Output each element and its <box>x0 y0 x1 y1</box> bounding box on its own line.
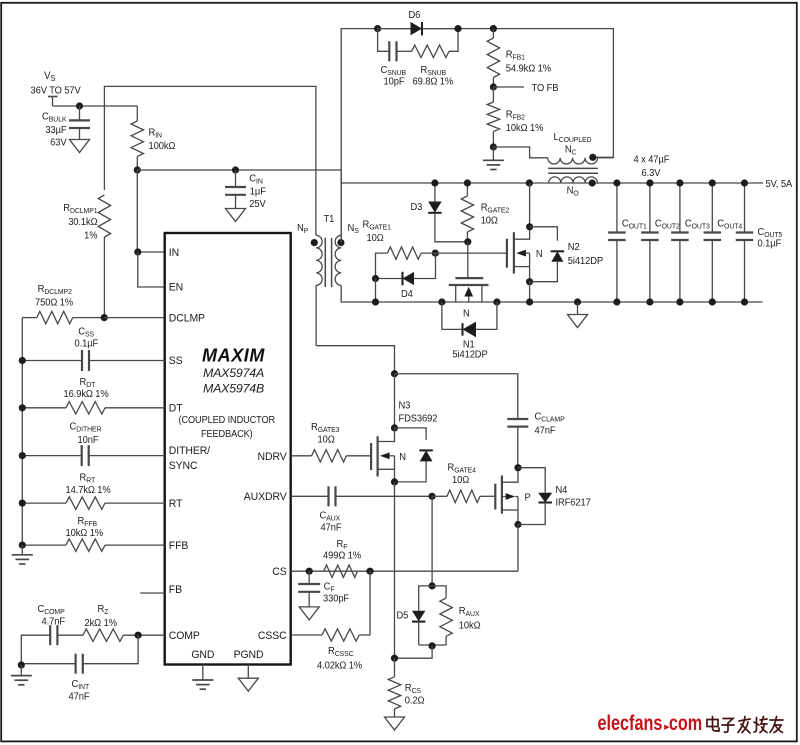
svg-text:1µF: 1µF <box>250 186 266 198</box>
svg-text:RIN: RIN <box>149 127 162 139</box>
resistor RF <box>323 539 361 578</box>
svg-text:RCSSC: RCSSC <box>328 646 354 658</box>
svg-text:47nF: 47nF <box>69 691 90 703</box>
watermark chinese characters <box>707 717 783 734</box>
wire left rail <box>21 318 23 545</box>
label 5V 5A <box>766 178 793 190</box>
svg-text:RF: RF <box>337 539 348 551</box>
svg-text:0.2Ω: 0.2Ω <box>405 695 425 707</box>
op-amp U1 MAX5974 box <box>165 233 291 665</box>
svg-text:RGATE4: RGATE4 <box>448 462 476 474</box>
wire CS line <box>291 570 518 572</box>
resistor RFB1 <box>487 29 551 87</box>
svg-text:RGATE1: RGATE1 <box>363 219 391 231</box>
svg-text:RGATE2: RGATE2 <box>481 202 509 214</box>
wire secondary output rail <box>341 182 763 184</box>
svg-text:10kΩ 1%: 10kΩ 1% <box>506 123 544 135</box>
node RIN bottom junction <box>134 166 141 173</box>
svg-text:0.1µF: 0.1µF <box>75 338 99 350</box>
ground left rail <box>12 545 33 564</box>
node TO FB junction <box>490 83 497 90</box>
svg-text:30.1kΩ: 30.1kΩ <box>68 217 97 229</box>
ground GND pin <box>192 665 213 690</box>
svg-text:IN: IN <box>169 247 179 259</box>
node RFB1 top junction <box>490 25 497 32</box>
svg-text:DCLMP: DCLMP <box>169 312 205 324</box>
resistor RSNUB <box>397 29 459 88</box>
ground below RCS <box>385 717 405 730</box>
node VS input terminal <box>31 71 82 106</box>
svg-text:CAUX: CAUX <box>320 510 341 522</box>
node rail junction below D4 <box>372 298 379 305</box>
wire N3 drain <box>394 374 396 428</box>
node NS rail junction <box>526 179 533 186</box>
svg-text:COUT1: COUT1 <box>622 218 647 230</box>
node SS rail junction <box>19 357 26 364</box>
resistor RGATE3 <box>291 422 371 462</box>
svg-text:N3: N3 <box>399 400 411 412</box>
svg-text:10kΩ 1%: 10kΩ 1% <box>66 528 104 540</box>
node snubber cathode junction <box>454 25 461 32</box>
node N2 source junction <box>526 278 533 285</box>
capacitor CAUX <box>291 486 432 533</box>
diode N3 body <box>395 428 433 482</box>
svg-text:MAX5974A: MAX5974A <box>203 366 264 380</box>
wire to RCS node <box>395 646 433 658</box>
capacitor CIN <box>225 170 266 210</box>
resistor RZ <box>83 604 165 642</box>
node RT rail junction <box>19 500 26 507</box>
node RF right junction <box>366 568 373 575</box>
svg-text:RFFB: RFFB <box>78 516 98 528</box>
svg-text:NP: NP <box>297 223 308 235</box>
svg-text:NC: NC <box>565 144 577 156</box>
node RCS junction <box>391 655 398 662</box>
wire N4 source to CS line <box>517 525 519 572</box>
resistor RCS <box>388 658 424 717</box>
svg-text:499Ω 1%: 499Ω 1% <box>323 550 361 562</box>
node D5-RAUX top junction <box>429 582 436 589</box>
svg-text:10Ω: 10Ω <box>367 233 384 245</box>
transistor N4 <box>495 468 531 525</box>
wire EN <box>138 252 165 287</box>
resistor RDCLMP2 <box>22 284 104 324</box>
wire TO FB stub <box>493 83 558 95</box>
node RGATE2 bottom junction <box>464 238 471 245</box>
MAXIM logo <box>202 346 265 366</box>
pin PGND label <box>234 649 264 661</box>
svg-text:D5: D5 <box>397 610 409 622</box>
diode D3 <box>411 183 468 242</box>
svg-text:NS: NS <box>348 223 359 235</box>
node DCLMP junction <box>101 314 108 321</box>
svg-text:CCLAMP: CCLAMP <box>535 411 565 423</box>
svg-text:MAX5974B: MAX5974B <box>203 382 264 396</box>
svg-text:69.8Ω 1%: 69.8Ω 1% <box>413 76 454 88</box>
svg-text:NO: NO <box>567 185 579 197</box>
svg-text:6.3V: 6.3V <box>642 168 661 180</box>
svg-text:10nF: 10nF <box>78 435 99 447</box>
svg-text:25V: 25V <box>249 199 266 211</box>
svg-text:COMP: COMP <box>169 630 200 642</box>
node N4 drain junction <box>514 464 521 471</box>
diode N4 body <box>518 468 591 525</box>
svg-text:RSNUB: RSNUB <box>421 65 447 77</box>
node RGATE2 top rail junction <box>464 179 471 186</box>
svg-text:COUT3: COUT3 <box>685 218 710 230</box>
inductor core <box>548 168 598 173</box>
svg-text:63V: 63V <box>50 137 67 149</box>
transformer T1 secondary winding NS <box>335 223 762 302</box>
svg-text:FEEDBACK): FEEDBACK) <box>201 428 253 440</box>
resistor RCSSC <box>291 571 370 671</box>
svg-text:RDCLMP1: RDCLMP1 <box>63 203 97 215</box>
svg-text:RRT: RRT <box>80 472 96 484</box>
transformer T1 primary winding NP <box>297 214 335 346</box>
wire top rail to transformer primary <box>104 86 316 235</box>
resistor RAUX <box>432 586 480 645</box>
wire clamp branch <box>395 374 518 419</box>
node AUXDRV junction <box>429 493 436 500</box>
label N3 <box>399 400 438 425</box>
svg-text:N: N <box>463 308 470 320</box>
svg-text:5i412DP: 5i412DP <box>568 256 604 268</box>
node D4 left junction <box>372 275 379 282</box>
diode D5 <box>397 586 433 645</box>
resistor RDCLMP1 <box>63 195 110 318</box>
diode D6 <box>378 10 458 36</box>
svg-text:CCOMP: CCOMP <box>38 604 65 616</box>
svg-text:33µF: 33µF <box>45 125 66 137</box>
svg-text:D4: D4 <box>401 289 413 301</box>
inductor LCOUPLED winding NO <box>549 177 598 197</box>
capacitor CSS <box>22 326 164 371</box>
svg-text:(COUPLED INDUCTOR: (COUPLED INDUCTOR <box>179 415 276 427</box>
capacitor CCLAMP <box>507 411 565 468</box>
node N1 right rail junction <box>493 298 500 305</box>
transformer T1 core <box>325 238 331 287</box>
svg-text:SYNC: SYNC <box>169 460 198 472</box>
svg-text:10pF: 10pF <box>384 76 405 88</box>
svg-text:RFB2: RFB2 <box>506 109 525 121</box>
resistor RGATE4 <box>432 462 495 502</box>
svg-text:CSSC: CSSC <box>258 630 287 642</box>
node NC polarity dot <box>589 154 596 161</box>
svg-text:T1: T1 <box>324 214 335 226</box>
svg-text:FFB: FFB <box>169 540 188 552</box>
node N2 rail junction <box>526 298 533 305</box>
svg-text:RAUX: RAUX <box>459 606 480 618</box>
IC right pin labels <box>244 451 288 642</box>
svg-text:RDT: RDT <box>80 377 96 389</box>
wire N2 source to rail <box>529 282 531 302</box>
capacitor COUT5 <box>736 179 783 305</box>
node DT rail junction <box>19 404 26 411</box>
node NO polarity dot <box>589 179 596 186</box>
resistor RIN <box>131 106 175 170</box>
svg-text:D3: D3 <box>411 202 423 214</box>
svg-text:RGATE3: RGATE3 <box>311 422 339 434</box>
capacitor CCOMP <box>21 604 83 665</box>
capacitor COUT2 <box>641 179 680 305</box>
node COMP junction <box>135 632 142 639</box>
svg-text:4.7nF: 4.7nF <box>42 616 65 628</box>
node RGATE1 right junction <box>432 250 439 257</box>
svg-text:750Ω 1%: 750Ω 1% <box>35 297 73 309</box>
label MAX5974A <box>203 366 264 380</box>
svg-text:MAXIM: MAXIM <box>202 346 265 366</box>
watermark elecfans.com <box>598 711 703 734</box>
capacitor COUT4 <box>704 179 743 305</box>
svg-text:DITHER/: DITHER/ <box>169 445 210 457</box>
svg-text:FB: FB <box>169 584 182 596</box>
wire D4 node to rail <box>375 279 377 303</box>
transistor N3 <box>371 428 406 482</box>
svg-text:EN: EN <box>169 281 183 293</box>
svg-text:RCS: RCS <box>405 683 421 695</box>
ground below CIN <box>226 209 246 222</box>
svg-text:CINT: CINT <box>72 679 90 691</box>
ground below CBULK <box>70 140 90 153</box>
resistor RRT <box>22 472 164 509</box>
svg-text:RZ: RZ <box>98 604 109 616</box>
resistor RFB2 <box>487 87 543 147</box>
resistor RFFB <box>22 516 164 552</box>
node clamp junction <box>391 370 398 377</box>
wire VS to RIN <box>53 105 138 107</box>
svg-text:N: N <box>399 452 406 464</box>
ground comp network <box>11 665 32 685</box>
capacitor CSNUB <box>378 29 407 88</box>
svg-text:SS: SS <box>169 355 183 367</box>
wire IN node rail <box>137 169 341 171</box>
svg-text:CIN: CIN <box>249 173 262 185</box>
wire D5 RAUX bottom <box>419 644 446 646</box>
ground below RFB2 <box>483 147 504 170</box>
resistor RDT <box>22 377 164 414</box>
diode D4 <box>376 253 436 300</box>
svg-text:CSNUB: CSNUB <box>381 65 407 77</box>
svg-text:COUT2: COUT2 <box>655 218 680 230</box>
svg-text:5V, 5A: 5V, 5A <box>766 178 793 190</box>
svg-text:RT: RT <box>169 498 183 510</box>
svg-text:CSS: CSS <box>78 326 94 338</box>
svg-text:100kΩ: 100kΩ <box>149 141 176 153</box>
capacitor CBULK <box>42 106 90 149</box>
ground output rail <box>568 302 588 328</box>
label MAX5974B <box>203 382 264 396</box>
node RFB2 bottom junction <box>490 143 497 150</box>
svg-text:10Ω: 10Ω <box>452 475 469 487</box>
wire gate line to N2 <box>421 252 507 254</box>
wire RGATE2 to N1 gate <box>467 242 469 278</box>
transistor N1 <box>449 278 489 320</box>
wire DCLMP to IC <box>104 317 165 319</box>
svg-text:N2: N2 <box>568 242 580 254</box>
wire top rail <box>341 29 613 243</box>
wire N3 source down <box>394 482 396 658</box>
node D5-RAUX bottom junction <box>429 642 436 649</box>
node N1 left rail junction <box>438 298 445 305</box>
resistor RGATE1 <box>363 219 422 278</box>
svg-text:LCOUPLED: LCOUPLED <box>554 132 592 144</box>
node CF junction <box>306 568 313 575</box>
transistor N2 <box>507 183 543 282</box>
capacitor CDITHER <box>22 421 164 466</box>
node DITHER rail junction <box>19 452 26 459</box>
pin GND label <box>191 649 214 661</box>
svg-text:CDITHER: CDITHER <box>70 421 102 433</box>
node N4 source junction <box>514 521 521 528</box>
svg-text:36V TO 57V: 36V TO 57V <box>31 85 82 97</box>
svg-text:elecfans: elecfans <box>598 711 663 734</box>
svg-text:AUXDRV: AUXDRV <box>244 491 288 503</box>
svg-text:1%: 1% <box>84 230 98 242</box>
svg-text:16.9kΩ 1%: 16.9kΩ 1% <box>64 389 109 401</box>
diode N2 body <box>530 227 604 282</box>
svg-text:com: com <box>669 711 702 734</box>
svg-text:GND: GND <box>191 649 214 661</box>
wire NS top to rail <box>340 170 342 243</box>
svg-text:5i412DP: 5i412DP <box>452 349 488 361</box>
wire primary to N3 drain <box>316 346 394 374</box>
node IN junction <box>134 248 141 255</box>
svg-text:PGND: PGND <box>234 649 264 661</box>
IC left pin labels <box>169 247 210 642</box>
resistor RGATE2 <box>461 183 509 242</box>
node FFB rail junction <box>19 542 26 549</box>
svg-text:14.7kΩ 1%: 14.7kΩ 1% <box>66 485 111 497</box>
node CCOMP-CINT left junction <box>18 661 25 668</box>
node N2 drain junction <box>526 223 533 230</box>
svg-text:0.1µF: 0.1µF <box>758 238 782 250</box>
wire AUX sense down <box>431 496 433 586</box>
node N3 source junction <box>391 478 398 485</box>
node output gnd junction <box>574 298 581 305</box>
node NS polarity dot <box>337 239 344 246</box>
svg-text:NDRV: NDRV <box>258 451 288 463</box>
svg-text:10kΩ: 10kΩ <box>459 620 481 632</box>
svg-text:2kΩ 1%: 2kΩ 1% <box>85 618 118 630</box>
svg-text:CF: CF <box>324 581 335 593</box>
svg-text:TO FB: TO FB <box>532 83 559 95</box>
svg-text:330pF: 330pF <box>323 593 349 605</box>
svg-text:4 x 47µF: 4 x 47µF <box>634 154 670 166</box>
wire FB stub <box>140 592 165 594</box>
diode N1 body <box>442 302 497 361</box>
svg-text:FDS3692: FDS3692 <box>399 413 438 425</box>
svg-text:54.9kΩ 1%: 54.9kΩ 1% <box>506 63 551 75</box>
label coupled inductor feedback <box>179 415 276 440</box>
svg-text:DT: DT <box>169 402 183 414</box>
svg-text:P: P <box>525 492 532 504</box>
capacitor COUT3 <box>671 179 710 305</box>
svg-text:RDCLMP2: RDCLMP2 <box>38 284 72 296</box>
svg-text:47nF: 47nF <box>321 522 342 534</box>
svg-text:D6: D6 <box>409 10 421 22</box>
svg-text:10Ω: 10Ω <box>318 434 335 446</box>
svg-text:RFB1: RFB1 <box>506 49 525 61</box>
node D3 top rail junction <box>431 179 438 186</box>
node CIN junction <box>232 166 239 173</box>
svg-text:N: N <box>536 249 543 261</box>
svg-text:IRF6217: IRF6217 <box>556 497 591 509</box>
capacitor COUT1 <box>608 179 647 305</box>
ground PGND pin <box>238 665 258 692</box>
wire IN-EN vertical <box>137 170 164 252</box>
svg-text:10Ω: 10Ω <box>481 215 498 227</box>
capacitor CF <box>298 571 349 607</box>
ground below CF <box>299 607 319 620</box>
svg-text:COUT5: COUT5 <box>758 227 783 239</box>
svg-text:N4: N4 <box>556 485 568 497</box>
inductor LCOUPLED winding NC <box>493 132 613 164</box>
node VS junction <box>76 102 83 109</box>
svg-text:CBULK: CBULK <box>42 111 67 123</box>
label 4x47uF <box>634 154 670 179</box>
node N3 drain junction <box>391 424 398 431</box>
svg-text:47nF: 47nF <box>535 425 556 437</box>
capacitor CINT <box>21 635 138 702</box>
node D6 anode junction <box>374 25 381 32</box>
svg-text:CS: CS <box>272 566 286 578</box>
node NP polarity dot <box>311 239 318 246</box>
svg-text:4.02kΩ 1%: 4.02kΩ 1% <box>317 660 362 672</box>
svg-text:COUT4: COUT4 <box>717 218 742 230</box>
